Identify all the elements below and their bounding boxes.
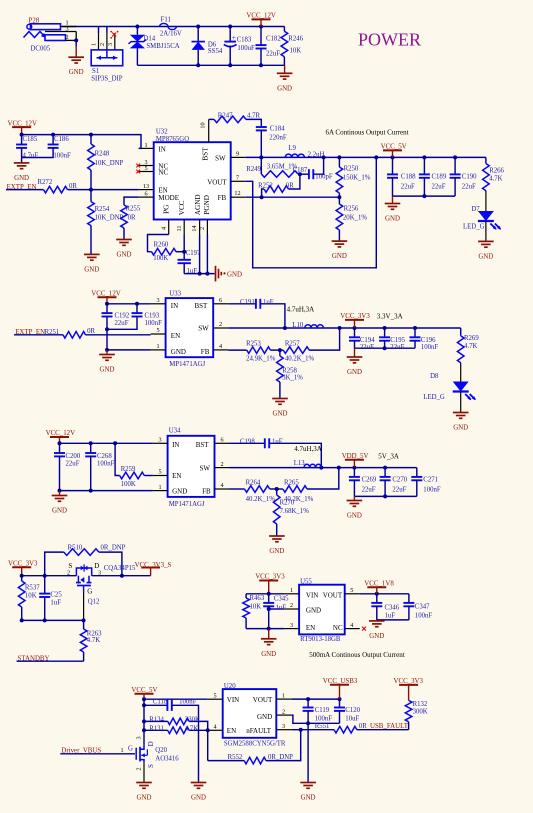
svg-text:22uF: 22uF [66,461,80,468]
svg-text:R248: R248 [95,151,110,158]
svg-text:100nF: 100nF [421,344,439,351]
svg-text:LED_G: LED_G [423,394,445,401]
svg-text:5V_3A: 5V_3A [378,452,399,460]
svg-text:1uF: 1uF [385,612,396,619]
svg-text:4.7R: 4.7R [247,113,260,120]
svg-text:C187: C187 [293,167,308,174]
svg-text:SS54: SS54 [208,48,223,55]
svg-text:AGND: AGND [194,194,202,215]
svg-text:0R_DNP: 0R_DNP [268,754,293,761]
svg-text:300K: 300K [413,709,428,716]
svg-text:IN: IN [172,441,179,449]
svg-text:C120: C120 [345,707,360,714]
svg-text:4: 4 [213,724,216,731]
svg-text:VOUT: VOUT [207,178,227,186]
svg-text:C270: C270 [392,477,407,484]
svg-text:2.2uH: 2.2uH [308,152,325,159]
svg-text:VIN: VIN [227,696,239,704]
svg-text:0R: 0R [128,215,136,222]
svg-text:6: 6 [219,297,222,304]
svg-text:SIP3S_DIP: SIP3S_DIP [91,75,123,82]
svg-text:L9: L9 [288,145,296,152]
svg-text:1: 1 [156,343,159,350]
svg-text:100nF: 100nF [179,699,197,706]
svg-text:1: 1 [158,484,161,491]
svg-text:R510: R510 [68,544,83,551]
svg-text:4.7uH,3A: 4.7uH,3A [287,306,315,314]
svg-text:100nF: 100nF [415,612,433,619]
svg-text:C268: C268 [97,453,112,460]
svg-text:D8: D8 [430,373,439,380]
svg-text:1uF: 1uF [276,604,287,611]
svg-text:R272: R272 [38,179,53,186]
svg-text:GND: GND [453,425,468,432]
svg-text:10: 10 [200,122,207,128]
svg-text:EN: EN [306,624,315,632]
svg-text:500mA Continous Output Current: 500mA Continous Output Current [309,651,405,659]
svg-text:2: 2 [199,227,206,230]
svg-text:C271: C271 [423,477,438,484]
svg-text:U55: U55 [300,578,312,585]
svg-text:RT9013-18GB: RT9013-18GB [300,636,341,643]
svg-text:PGND: PGND [203,195,211,215]
svg-text:3: 3 [107,43,114,46]
svg-text:2: 2 [67,569,70,576]
svg-text:1uF: 1uF [272,438,283,445]
svg-text:NC: NC [333,624,343,632]
svg-text:5: 5 [213,692,216,699]
svg-text:1uF: 1uF [50,600,61,607]
svg-text:C188: C188 [401,174,416,181]
svg-text:R251: R251 [45,329,60,336]
svg-text:R463: R463 [250,595,265,602]
svg-text:220nF: 220nF [269,134,287,141]
svg-text:4: 4 [220,482,223,489]
svg-text:4.7K: 4.7K [185,726,198,733]
svg-text:1: 1 [290,587,293,594]
svg-text:3: 3 [136,736,143,739]
svg-text:R266: R266 [489,167,504,174]
svg-text:R551: R551 [315,723,330,730]
svg-text:C185: C185 [23,136,38,143]
svg-text:7: 7 [236,174,239,181]
svg-text:100K: 100K [153,255,168,262]
svg-text:6A Continous Output Current: 6A Continous Output Current [326,129,409,137]
svg-text:9: 9 [236,150,239,157]
svg-text:NC: NC [158,168,168,176]
svg-text:VCC_3V3: VCC_3V3 [255,574,285,581]
svg-text:1: 1 [91,43,98,46]
svg-text:nFAULT: nFAULT [246,727,272,735]
svg-text:22uF: 22uF [390,344,404,351]
svg-text:BST: BST [196,441,210,449]
svg-text:4.7K: 4.7K [489,175,502,182]
svg-text:GND: GND [137,795,152,802]
svg-text:R246: R246 [288,36,303,43]
svg-text:0R: 0R [359,723,367,730]
svg-text:R265: R265 [284,480,299,487]
svg-text:GND: GND [347,369,362,376]
svg-text:MODE: MODE [158,194,179,202]
svg-text:1uF: 1uF [187,268,198,275]
svg-text:BST: BST [195,302,209,310]
svg-text:6: 6 [144,191,147,198]
svg-text:R250: R250 [344,166,359,173]
svg-text:Q20: Q20 [155,747,167,754]
svg-text:VCC_3V3_S: VCC_3V3_S [135,562,172,569]
svg-text:GND: GND [261,651,276,658]
svg-text:VCC_5V: VCC_5V [131,687,157,694]
svg-text:10uF: 10uF [345,716,359,723]
svg-text:150K_1%: 150K_1% [343,175,371,182]
svg-text:2: 2 [99,43,106,46]
svg-text:F11: F11 [161,17,171,24]
svg-text:GND: GND [369,633,384,640]
svg-text:GND: GND [172,487,187,495]
svg-text:USB_FAULT: USB_FAULT [370,723,409,730]
svg-text:C189: C189 [432,174,447,181]
svg-text:R552: R552 [228,754,243,761]
svg-text:D: D [147,741,155,746]
svg-text:R257: R257 [285,341,300,348]
svg-text:GND: GND [269,548,284,555]
svg-text:SMBJ15CA: SMBJ15CA [146,43,179,50]
svg-text:SW: SW [215,154,226,162]
svg-text:22uF: 22uF [115,320,129,327]
svg-text:EN: EN [227,727,236,735]
svg-text:U34: U34 [169,428,181,435]
svg-text:C191: C191 [240,299,255,306]
svg-text:14: 14 [191,225,198,231]
svg-text:VCC_5V: VCC_5V [381,144,407,151]
svg-text:22uF: 22uF [362,487,376,494]
svg-text:C184: C184 [270,125,285,132]
svg-text:10K: 10K [290,48,302,55]
svg-text:4.7uH,3A: 4.7uH,3A [294,445,322,453]
svg-text:R260: R260 [154,242,169,249]
svg-text:VIN: VIN [306,591,318,599]
svg-text:GND: GND [191,795,206,802]
svg-text:L10: L10 [292,322,304,329]
svg-text:C119: C119 [315,707,330,714]
svg-text:R258: R258 [282,368,297,375]
svg-text:FB: FB [218,194,227,202]
svg-text:VCC_3V3: VCC_3V3 [394,678,424,685]
svg-text:GND: GND [301,795,316,802]
svg-text:VDD_5V: VDD_5V [342,453,369,460]
svg-text:CQA34P15: CQA34P15 [104,565,136,572]
svg-text:3: 3 [290,622,293,629]
svg-text:U32: U32 [156,128,168,135]
svg-text:100pF: 100pF [315,174,333,181]
svg-text:GND: GND [385,216,400,223]
svg-text:3: 3 [158,437,161,444]
svg-text:1: 1 [144,142,147,149]
svg-text:C183: C183 [237,36,252,43]
svg-text:MP1471AGJ: MP1471AGJ [169,501,205,508]
svg-text:5: 5 [350,587,353,594]
svg-text:GND: GND [332,253,347,260]
svg-text:MP8765GQ: MP8765GQ [156,136,189,143]
svg-text:10K: 10K [25,592,37,599]
svg-text:0R: 0R [87,328,95,335]
svg-text:12: 12 [234,190,240,197]
svg-text:IN: IN [158,145,165,153]
svg-text:VCC_3V3: VCC_3V3 [8,561,38,568]
svg-text:GND: GND [69,69,84,76]
svg-text:4.7K: 4.7K [87,637,100,644]
svg-text:U20: U20 [224,683,236,690]
svg-text:VCC_12V: VCC_12V [8,120,38,127]
svg-text:C190: C190 [462,174,477,181]
svg-text:24.9K_1%: 24.9K_1% [246,356,276,363]
svg-text:22uF: 22uF [360,344,374,351]
svg-text:SW: SW [198,325,209,333]
svg-text:SGM2588CYN5G/TR: SGM2588CYN5G/TR [224,741,286,748]
svg-text:22uF: 22uF [432,184,446,191]
svg-text:VCC: VCC [178,200,186,215]
svg-text:GND: GND [14,175,29,182]
svg-text:20K_1%: 20K_1% [343,215,368,222]
svg-text:SW: SW [200,464,211,472]
svg-text:10K_DNP: 10K_DNP [95,160,124,167]
svg-text:MP1471AGJ: MP1471AGJ [169,361,205,368]
svg-text:DC005: DC005 [31,46,51,53]
svg-text:IN: IN [171,302,178,310]
svg-text:C182: C182 [266,36,281,43]
svg-text:VOUT: VOUT [323,591,343,599]
svg-text:R537: R537 [25,584,40,591]
svg-text:0R_DNP: 0R_DNP [101,544,126,551]
svg-text:D14: D14 [144,36,156,43]
svg-text:POWER: POWER [358,29,421,49]
svg-text:100nF: 100nF [53,153,71,160]
svg-text:GND: GND [171,348,186,356]
svg-text:GND: GND [273,411,288,418]
svg-text:10K: 10K [250,604,262,611]
svg-text:VOUT: VOUT [253,696,273,704]
svg-text:VCC_12V: VCC_12V [91,291,121,298]
svg-text:EN: EN [172,472,181,480]
svg-text:C347: C347 [415,604,430,611]
svg-text:R264: R264 [246,480,261,487]
svg-text:7.68K_1%: 7.68K_1% [280,508,310,515]
svg-text:FB: FB [202,487,211,495]
svg-text:GND: GND [257,713,272,721]
svg-text:22uF: 22uF [462,184,476,191]
svg-text:C198: C198 [240,438,255,445]
svg-text:3: 3 [156,297,159,304]
svg-text:330K: 330K [185,716,200,723]
svg-text:22uF: 22uF [266,51,280,58]
svg-text:2: 2 [290,602,293,609]
svg-text:C269: C269 [362,477,377,484]
svg-text:13: 13 [143,183,149,190]
svg-text:GND: GND [100,367,115,374]
svg-text:100nF: 100nF [423,487,441,494]
svg-text:R270: R270 [280,500,295,507]
svg-text:EN: EN [171,332,180,340]
svg-text:1: 1 [120,747,123,754]
svg-text:3K_1%: 3K_1% [282,375,303,382]
svg-text:R252: R252 [258,182,273,189]
svg-text:10K_DNP: 10K_DNP [95,215,124,222]
svg-text:R132: R132 [413,701,428,708]
svg-text:U33: U33 [169,290,181,297]
svg-text:AO3416: AO3416 [155,755,179,762]
svg-text:2A/16V: 2A/16V [160,31,182,38]
svg-text:5: 5 [156,327,159,334]
svg-text:S: S [147,764,155,768]
svg-text:GND: GND [277,85,292,92]
svg-text:1: 1 [282,692,285,699]
svg-text:VCC_USB3: VCC_USB3 [323,678,358,685]
svg-text:5: 5 [144,165,147,172]
svg-text:VCC_12V: VCC_12V [46,430,76,437]
svg-text:C200: C200 [66,453,81,460]
svg-text:S1: S1 [92,68,99,75]
svg-text:100nF: 100nF [145,320,163,327]
svg-text:BST: BST [201,147,209,161]
svg-text:R247: R247 [218,113,233,120]
svg-text:0R: 0R [286,182,294,189]
svg-text:Q12: Q12 [88,599,100,606]
svg-text:GND: GND [227,271,242,278]
svg-text:0R: 0R [69,183,77,190]
svg-text:C345: C345 [274,595,289,602]
svg-text:L13: L13 [294,460,306,467]
svg-text:VCC_12V: VCC_12V [246,13,276,20]
svg-text:R134: R134 [149,716,164,723]
svg-text:3.3V_3A: 3.3V_3A [377,313,403,321]
svg-text:PG: PG [163,205,171,214]
svg-text:C186: C186 [54,136,69,143]
svg-text:C193: C193 [145,312,160,319]
svg-text:100K: 100K [121,481,136,488]
svg-text:GND: GND [478,253,493,260]
svg-text:GND: GND [84,266,99,273]
svg-text:R131: R131 [149,726,164,733]
svg-text:G: G [87,587,92,595]
svg-text:R256: R256 [344,205,359,212]
svg-text:11: 11 [176,226,183,232]
svg-text:R255: R255 [126,206,141,213]
svg-text:4: 4 [350,622,353,629]
svg-text:22uF: 22uF [401,184,415,191]
svg-text:4: 4 [160,227,167,230]
svg-text:C346: C346 [385,604,400,611]
svg-text:2: 2 [219,321,222,328]
svg-text:5: 5 [158,469,161,476]
svg-text:2: 2 [136,767,143,770]
svg-text:1uF: 1uF [263,299,274,306]
svg-text:100uF: 100uF [237,45,255,52]
svg-text:2: 2 [282,708,285,715]
svg-text:4.7uF: 4.7uF [23,153,39,160]
svg-text:GND: GND [52,508,67,515]
svg-text:G: G [128,746,133,753]
svg-text:C192: C192 [115,312,130,319]
svg-text:4.7K: 4.7K [464,343,477,350]
svg-text:100nF: 100nF [315,716,333,723]
svg-text:C25: C25 [50,592,62,599]
svg-text:R269: R269 [464,335,479,342]
svg-text:4: 4 [219,343,222,350]
svg-text:40.2K_1%: 40.2K_1% [246,496,276,503]
svg-text:GND: GND [117,252,132,259]
svg-text:3: 3 [282,723,285,730]
svg-text:C118: C118 [153,699,168,706]
svg-text:100nF: 100nF [97,461,115,468]
svg-text:R249: R249 [246,166,261,173]
svg-text:6: 6 [220,437,223,444]
svg-text:FB: FB [201,348,210,356]
svg-text:R253: R253 [246,341,261,348]
svg-text:VCC_1V8: VCC_1V8 [364,581,394,588]
svg-text:R254: R254 [95,206,110,213]
svg-text:VCC_3V3: VCC_3V3 [340,313,370,320]
svg-text:2: 2 [220,461,223,468]
svg-text:R259: R259 [121,466,136,473]
svg-text:GND: GND [306,606,321,614]
svg-text:C197: C197 [186,250,201,257]
svg-text:22uF: 22uF [392,487,406,494]
svg-text:GND: GND [347,513,362,520]
svg-text:40.2K_1%: 40.2K_1% [285,356,315,363]
svg-text:LED_G: LED_G [463,223,485,230]
